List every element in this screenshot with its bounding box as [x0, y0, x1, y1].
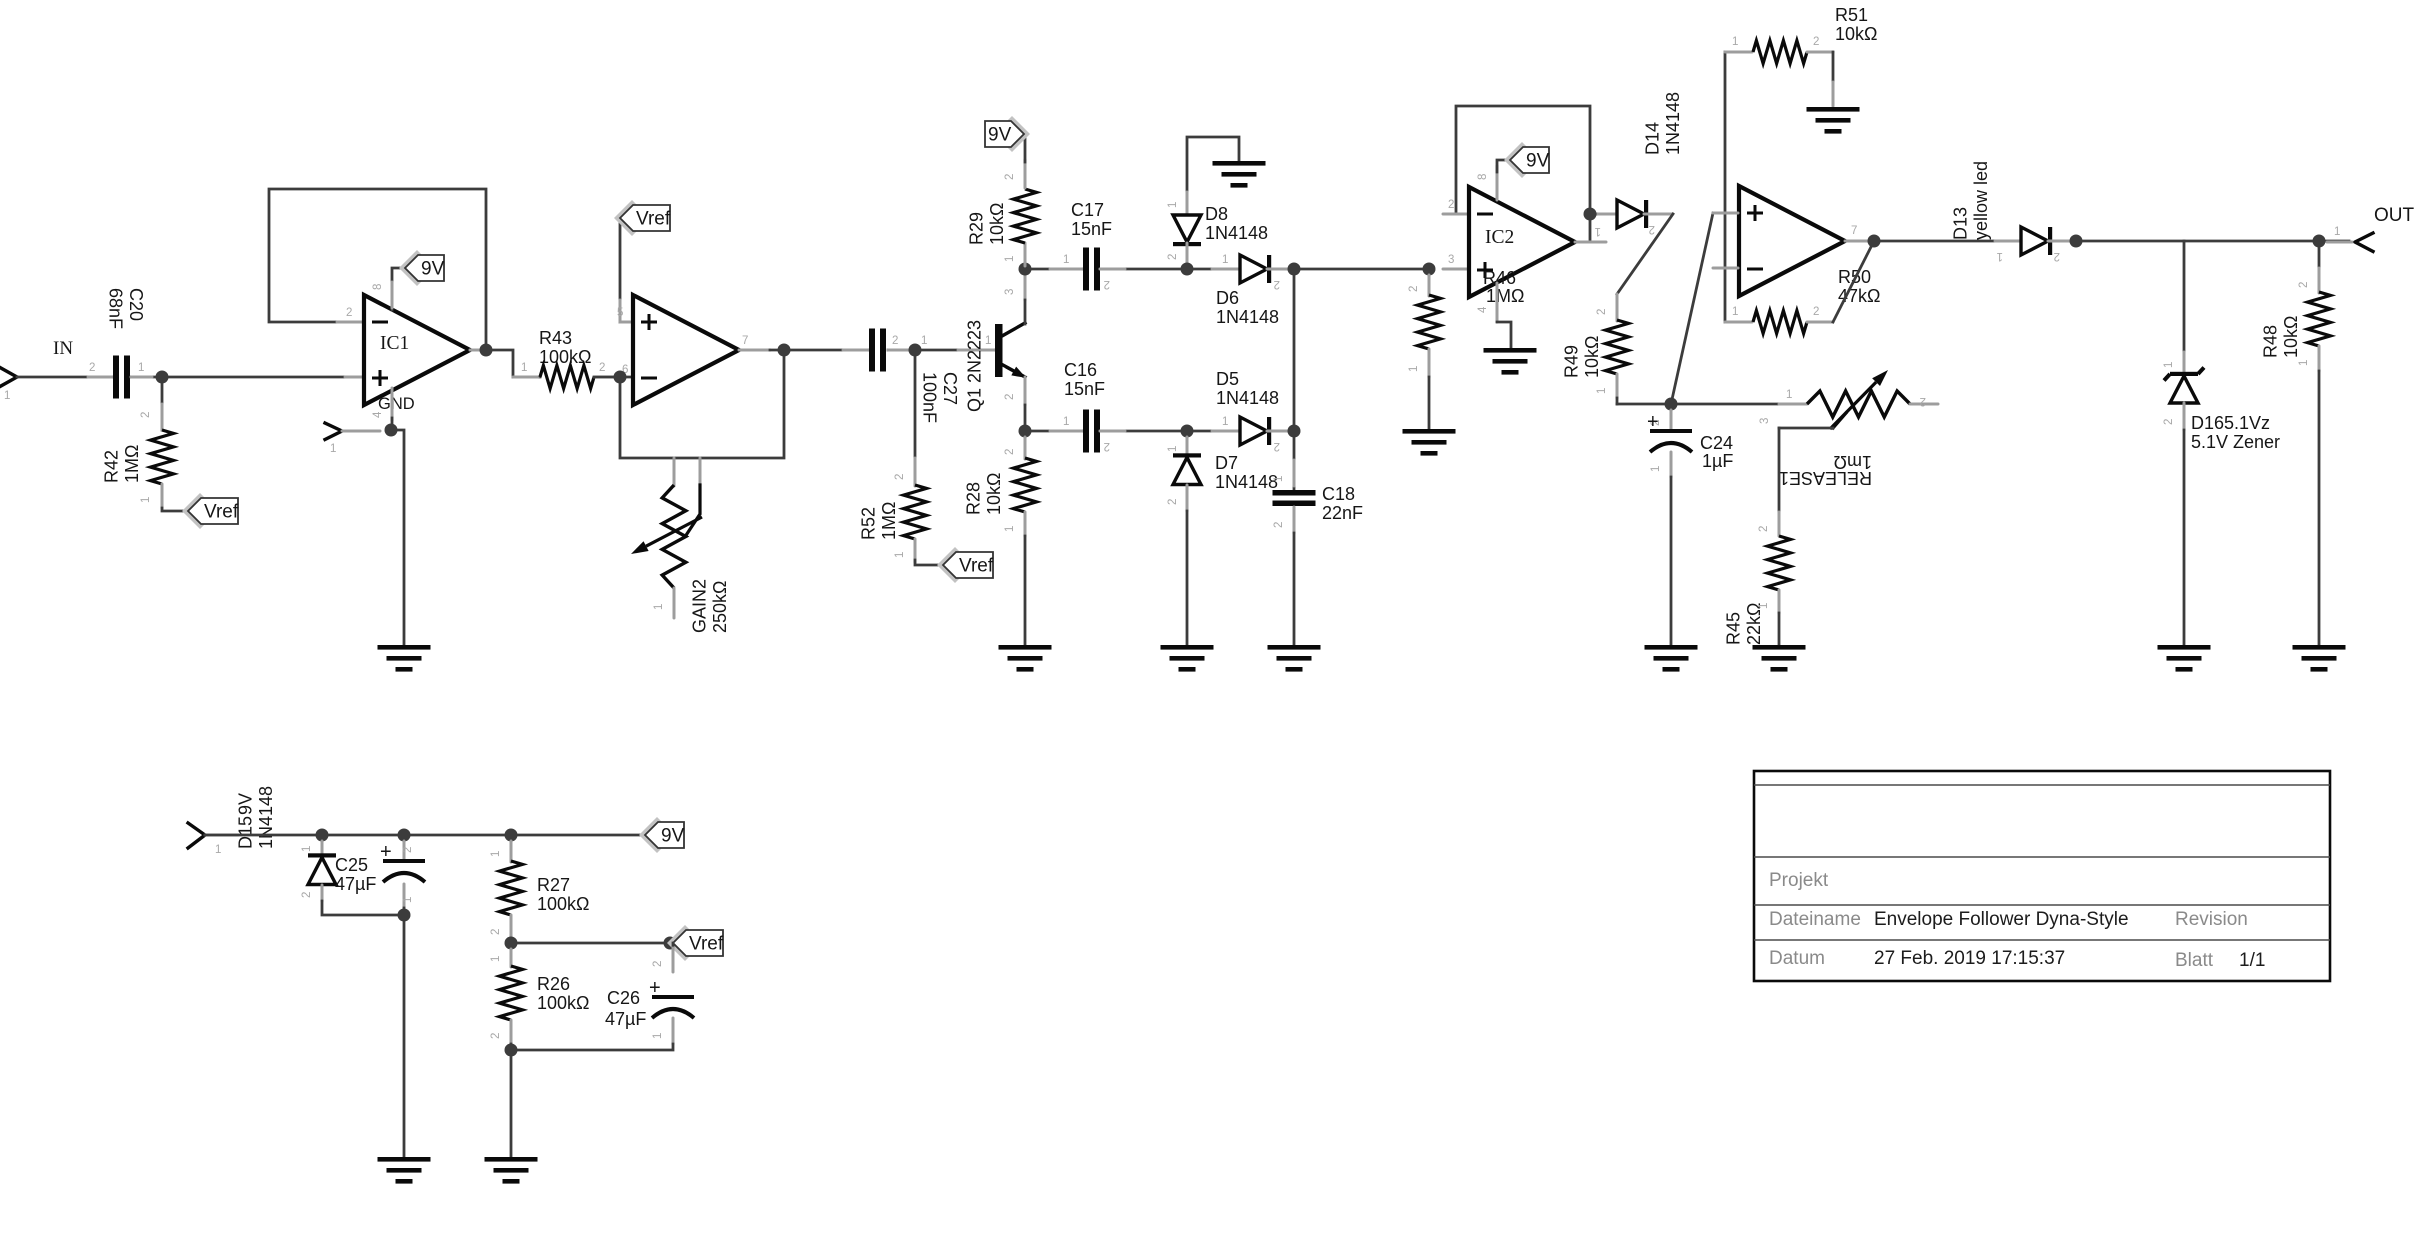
ground (below R45) — [1753, 645, 1806, 650]
svg-text:Vref: Vref — [689, 934, 724, 955]
svg-text:R29: R29 — [967, 212, 987, 245]
resistor R46 — [1418, 295, 1441, 349]
svg-text:15nF: 15nF — [1064, 379, 1105, 399]
svg-text:1: 1 — [490, 956, 502, 962]
wire — [1670, 452, 1673, 477]
ground (below C24) — [1645, 645, 1698, 650]
zener diode D16 5.1Vz — [2170, 376, 2198, 403]
wire — [1294, 268, 1429, 271]
svg-text:2: 2 — [1813, 306, 1819, 318]
op-amp U2 — [633, 295, 739, 405]
node (D8/D6) — [1181, 263, 1194, 276]
svg-text:OUT: OUT — [2374, 205, 2415, 226]
wire (R51 left) — [1725, 51, 1752, 54]
wiper arrow GAIN2 — [646, 517, 702, 546]
svg-text:250kΩ: 250kΩ — [710, 581, 730, 634]
svg-text:2: 2 — [1167, 254, 1179, 260]
svg-text:GAIN2: GAIN2 — [690, 579, 710, 633]
svg-text:2: 2 — [1758, 526, 1770, 532]
wire (pot pin1) — [1779, 403, 1807, 406]
wire (pot pin1) — [673, 588, 676, 618]
svg-text:2: 2 — [894, 474, 906, 480]
wire — [403, 915, 406, 1156]
svg-text:2: 2 — [652, 961, 664, 967]
wire (R27 top) — [510, 841, 513, 862]
svg-text:2: 2 — [1104, 278, 1110, 290]
diode D7 — [1173, 458, 1201, 485]
svg-text:1: 1 — [1063, 416, 1069, 428]
svg-text:IN: IN — [53, 338, 73, 359]
wire (diagonal D14-R49) — [1617, 214, 1673, 294]
svg-text:2: 2 — [1274, 440, 1280, 452]
wire (C18 top) — [1293, 431, 1296, 489]
wire (collector) — [1024, 275, 1027, 300]
connector IN (pinhead) — [0, 368, 17, 387]
svg-text:1: 1 — [402, 897, 414, 903]
svg-text:1/1: 1/1 — [2239, 950, 2265, 971]
svg-text:GND: GND — [378, 395, 415, 413]
wire (vertical R51-R50) — [1724, 52, 1727, 322]
svg-text:D8: D8 — [1205, 204, 1228, 224]
svg-text:1: 1 — [1786, 389, 1792, 401]
diode D8 — [1173, 215, 1201, 242]
svg-text:IC2: IC2 — [1485, 227, 1514, 248]
svg-text:100nF: 100nF — [920, 372, 940, 423]
svg-text:1: 1 — [2163, 362, 2175, 368]
svg-text:C20: C20 — [126, 288, 146, 321]
svg-text:1N4148: 1N4148 — [1663, 92, 1683, 155]
svg-text:1: 1 — [1596, 388, 1608, 394]
svg-text:1: 1 — [521, 362, 527, 374]
flag 9V (IC2) — [1504, 142, 1540, 178]
wire — [131, 376, 345, 379]
resistor R48 — [2308, 292, 2331, 346]
wire (op3 + stub) — [1713, 212, 1738, 215]
node (R48 top) — [2313, 235, 2326, 248]
node (C25) — [398, 829, 411, 842]
svg-text:2: 2 — [1167, 499, 1179, 505]
svg-text:3: 3 — [1448, 254, 1454, 266]
wire (op3 - stub) — [1713, 267, 1738, 270]
wire — [1025, 430, 1083, 433]
wire (Vref to +) — [620, 218, 633, 322]
node (IC1 output) — [480, 344, 493, 357]
wire — [205, 834, 645, 837]
svg-text:1: 1 — [1758, 603, 1770, 609]
svg-text:1µF: 1µF — [1702, 451, 1733, 471]
potentiometer GAIN2 — [662, 485, 686, 588]
svg-text:2: 2 — [2298, 282, 2310, 288]
svg-text:1N4148: 1N4148 — [1216, 307, 1279, 327]
potentiometer RELEASE1 — [1807, 391, 1910, 417]
ground (below R28) — [999, 645, 1052, 650]
wire — [888, 349, 995, 352]
node (collector) — [1019, 263, 1032, 276]
wire — [510, 1050, 513, 1156]
flag Vref (R52) — [937, 547, 973, 583]
diode D15 — [308, 858, 336, 885]
wire (R26 top) — [510, 949, 513, 967]
svg-text:1: 1 — [1222, 254, 1228, 266]
svg-text:Blatt: Blatt — [2175, 950, 2214, 971]
wire — [594, 376, 618, 379]
svg-text:4: 4 — [372, 411, 384, 418]
wire — [1100, 430, 1187, 433]
title block — [1754, 771, 2330, 981]
wire — [784, 349, 868, 352]
connector 9V input (pinhead) — [188, 823, 205, 848]
svg-text:1: 1 — [1167, 446, 1179, 452]
wire (R50 right) — [1807, 321, 1833, 324]
wire — [1293, 269, 1296, 431]
node (op2 - input) — [614, 371, 627, 384]
resistor R52 — [904, 485, 927, 539]
svg-text:R49: R49 — [1562, 345, 1582, 378]
svg-text:Vref: Vref — [636, 209, 671, 230]
svg-text:4: 4 — [1477, 306, 1489, 313]
svg-text:2: 2 — [1920, 395, 1926, 407]
wire — [1024, 512, 1027, 536]
wire (R29 top) — [1024, 160, 1027, 188]
wire — [1186, 243, 1189, 265]
svg-text:1MΩ: 1MΩ — [1486, 286, 1524, 306]
node (IC2 out) — [1584, 208, 1597, 221]
node (D13 out) — [2070, 235, 2083, 248]
svg-text:Vref: Vref — [959, 556, 994, 577]
svg-text:2: 2 — [1649, 223, 1655, 235]
node (C25 bottom) — [398, 909, 411, 922]
svg-text:9V: 9V — [988, 125, 1012, 146]
svg-text:1MΩ: 1MΩ — [122, 445, 142, 483]
wire — [2183, 403, 2186, 430]
svg-text:C27: C27 — [940, 372, 960, 405]
wire — [2076, 240, 2349, 243]
wire — [1267, 268, 1293, 271]
flag 9V (R29) — [994, 116, 1030, 152]
wire — [1778, 590, 1781, 613]
wire — [2048, 240, 2074, 243]
ground (R51) — [1807, 107, 1860, 112]
wire — [161, 484, 164, 508]
svg-text:Vref: Vref — [204, 502, 239, 523]
svg-text:R26: R26 — [537, 974, 570, 994]
svg-text:D6: D6 — [1216, 288, 1239, 308]
svg-text:27 Feb. 2019 17:15:37: 27 Feb. 2019 17:15:37 — [1874, 948, 2065, 969]
diode D13 — [2021, 227, 2048, 255]
wiper arrow RELEASE1 — [1830, 382, 1876, 429]
svg-text:8: 8 — [1477, 174, 1489, 180]
node (C27/R52/Q1 base) — [909, 344, 922, 357]
capacitor C16 — [1083, 410, 1089, 453]
wire — [1874, 240, 2021, 243]
flag Vref (R42) — [182, 493, 218, 529]
svg-text:Projekt: Projekt — [1769, 870, 1829, 891]
ground (below zener) — [2158, 645, 2211, 650]
wire (R50 left) — [1725, 321, 1752, 324]
svg-text:1N4148: 1N4148 — [1216, 388, 1279, 408]
capacitor C18 — [1273, 490, 1316, 496]
svg-text:2: 2 — [1813, 36, 1819, 48]
svg-text:2: 2 — [1448, 199, 1454, 211]
wire (pot stub 2) — [699, 458, 702, 486]
capacitor C17 — [1083, 248, 1089, 291]
node (D5/D7) — [1181, 425, 1194, 438]
connector GND pinhead — [325, 423, 342, 440]
svg-text:2: 2 — [599, 362, 605, 374]
svg-text:3: 3 — [1759, 418, 1771, 424]
flag Vref (op-amp2 +) — [614, 200, 650, 236]
svg-text:2: 2 — [490, 929, 502, 935]
flag Vref (divider) — [667, 925, 703, 961]
svg-text:D14: D14 — [1643, 122, 1663, 155]
svg-text:C17: C17 — [1071, 200, 1104, 220]
wire — [672, 1018, 675, 1044]
wire — [17, 376, 112, 379]
wire — [1186, 485, 1189, 511]
svg-text:1: 1 — [301, 846, 313, 852]
wire — [1187, 430, 1240, 433]
wire — [1428, 349, 1431, 377]
wire — [1616, 374, 1619, 398]
svg-text:R43: R43 — [539, 328, 572, 348]
wire — [1293, 507, 1296, 533]
svg-text:10kΩ: 10kΩ — [1582, 336, 1602, 378]
svg-text:Revision: Revision — [2175, 909, 2248, 930]
diode D5 — [1240, 417, 1267, 445]
svg-text:1: 1 — [1408, 366, 1420, 372]
ground (below C18) — [1268, 645, 1321, 650]
wire (IC1 out) — [470, 350, 540, 377]
wire (diagonal op3+ to C24) — [1671, 213, 1713, 404]
svg-text:1: 1 — [330, 443, 336, 455]
svg-text:1MΩ: 1MΩ — [879, 502, 899, 540]
wire (IC1 feedback) — [269, 189, 486, 350]
node (Vref divider) — [505, 937, 518, 950]
wire (IC2 out) — [1575, 241, 1606, 244]
svg-text:1: 1 — [1997, 250, 2003, 262]
svg-text:1: 1 — [921, 335, 927, 347]
capacitor C20 — [113, 356, 119, 399]
wire — [1100, 268, 1187, 271]
wire — [511, 942, 670, 945]
wire (IC2 pin8) — [1496, 166, 1499, 200]
svg-text:10kΩ: 10kΩ — [2281, 316, 2301, 358]
svg-text:9V: 9V — [661, 826, 685, 847]
wire — [1644, 213, 1672, 216]
svg-text:1: 1 — [652, 1033, 664, 1039]
svg-text:47kΩ: 47kΩ — [1838, 286, 1880, 306]
wire (D7 top) — [1186, 437, 1189, 456]
resistor R42 — [151, 430, 174, 484]
svg-text:1: 1 — [1063, 254, 1069, 266]
ground (IC2 pin4) — [1484, 348, 1537, 353]
op-amp IC2 — [1469, 187, 1575, 297]
wire — [510, 1020, 513, 1044]
node (emitter) — [1019, 425, 1032, 438]
svg-text:2: 2 — [490, 1033, 502, 1039]
svg-text:5.1V Zener: 5.1V Zener — [2191, 432, 2280, 452]
svg-text:Dateiname: Dateiname — [1769, 909, 1861, 930]
svg-text:D7: D7 — [1215, 453, 1238, 473]
svg-text:1: 1 — [1222, 416, 1228, 428]
svg-text:R45: R45 — [1724, 612, 1744, 645]
svg-text:7: 7 — [742, 335, 748, 347]
wire (IC2 feedback) — [1456, 106, 1590, 242]
wire (C25 top) — [403, 841, 406, 860]
flag 9V (rail) — [639, 817, 675, 853]
svg-text:1N4148: 1N4148 — [256, 786, 276, 849]
svg-text:2: 2 — [892, 335, 898, 347]
svg-text:Envelope Follower Dyna-Style: Envelope Follower Dyna-Style — [1874, 909, 2129, 930]
wire (pot stub 3) — [673, 458, 676, 486]
svg-text:1: 1 — [653, 604, 665, 610]
ground (below D7) — [1161, 645, 1214, 650]
node (D5 out) — [1288, 425, 1301, 438]
wire (R29 bottom) — [1024, 243, 1027, 266]
wire (C26 top) — [672, 943, 675, 948]
wire — [1617, 403, 1779, 406]
ground (C25/D15) — [378, 1157, 431, 1162]
svg-text:R28: R28 — [964, 482, 984, 515]
wire — [510, 915, 513, 940]
svg-text:1: 1 — [1650, 466, 1662, 472]
wire (IC1 pin8) — [392, 268, 405, 310]
svg-text:1N4148: 1N4148 — [1205, 223, 1268, 243]
svg-text:5: 5 — [617, 307, 623, 319]
svg-text:2: 2 — [1596, 309, 1608, 315]
svg-text:10kΩ: 10kΩ — [984, 473, 1004, 515]
svg-text:1: 1 — [215, 844, 221, 856]
ground (top, D8) — [1213, 161, 1266, 166]
svg-text:1: 1 — [985, 335, 991, 347]
svg-text:yellow led: yellow led — [1971, 161, 1991, 240]
svg-text:2: 2 — [2163, 419, 2175, 425]
resistor R29 — [1014, 189, 1037, 243]
svg-text:2: 2 — [402, 847, 414, 853]
svg-text:1: 1 — [1167, 202, 1179, 208]
node (R26 bottom) — [505, 1044, 518, 1057]
svg-text:D5: D5 — [1216, 369, 1239, 389]
node (IC2 + input) — [1423, 263, 1436, 276]
wire — [1267, 430, 1293, 433]
diode D6 — [1240, 255, 1267, 283]
svg-text:1N4148: 1N4148 — [1215, 472, 1278, 492]
resistor R26 — [500, 966, 523, 1020]
op-amp IC1 — [364, 295, 470, 405]
svg-text:47µF: 47µF — [605, 1009, 646, 1029]
svg-text:2: 2 — [1104, 440, 1110, 452]
wire (pot pin3 to R45) — [1779, 427, 1833, 430]
svg-text:2: 2 — [301, 892, 313, 898]
wire — [2318, 346, 2321, 371]
svg-text:2: 2 — [1274, 278, 1280, 290]
wire (C24 top) — [1670, 410, 1673, 430]
svg-text:1: 1 — [1732, 306, 1738, 318]
svg-text:47µF: 47µF — [335, 874, 376, 894]
svg-text:1: 1 — [1595, 225, 1601, 237]
svg-text:R27: R27 — [537, 875, 570, 895]
wire (D15 top) — [321, 841, 324, 856]
svg-text:R48: R48 — [2261, 325, 2281, 358]
wire (zener top) — [2183, 241, 2186, 352]
svg-text:R52: R52 — [859, 507, 879, 540]
capacitor C27 — [869, 329, 875, 372]
svg-text:C16: C16 — [1064, 360, 1097, 380]
svg-text:R42: R42 — [102, 450, 122, 483]
wire (R48 top) — [2318, 241, 2321, 270]
wire — [161, 377, 164, 430]
node (op3 out) — [1868, 235, 1881, 248]
svg-text:R51: R51 — [1835, 5, 1868, 25]
wire (R51 right) — [1807, 51, 1833, 54]
svg-text:Q1 2N2223: Q1 2N2223 — [965, 320, 985, 412]
resistor R51 — [1753, 41, 1807, 64]
wire — [1590, 213, 1617, 216]
node (C24 top) — [1665, 398, 1678, 411]
svg-text:1: 1 — [140, 497, 152, 503]
wire (D8 to top ground) — [1187, 137, 1239, 192]
resistor R45 — [1768, 536, 1791, 590]
svg-text:C24: C24 — [1700, 433, 1733, 453]
ground (R26) — [485, 1157, 538, 1162]
wire (R28 top) — [1024, 437, 1027, 459]
resistor R27 — [500, 861, 523, 915]
node (IC1 pin4/gnd) — [385, 424, 398, 437]
svg-text:2: 2 — [1273, 522, 1285, 528]
diode D14 — [1617, 200, 1644, 228]
svg-text:10kΩ: 10kΩ — [987, 203, 1007, 245]
svg-text:1: 1 — [1732, 36, 1738, 48]
wire (emitter) — [1024, 377, 1027, 405]
node A (C20/R42/IC1+) — [156, 371, 169, 384]
wire (op2 out) — [739, 349, 770, 352]
svg-text:C18: C18 — [1322, 484, 1355, 504]
transistor Q1 2N2223 — [995, 324, 1003, 377]
op-amp U3 — [1739, 186, 1845, 296]
svg-text:1: 1 — [1004, 526, 1016, 532]
wire (IC2 pin4) — [1496, 283, 1499, 322]
wire — [403, 884, 406, 908]
svg-text:1: 1 — [2334, 226, 2340, 238]
svg-text:15nF: 15nF — [1071, 219, 1112, 239]
wire (feedback loop op2) — [620, 350, 784, 458]
svg-text:1: 1 — [1004, 256, 1016, 262]
ground (below R46) — [1403, 429, 1456, 434]
node (op2 output) — [778, 344, 791, 357]
node (R27) — [505, 829, 518, 842]
svg-text:C26: C26 — [607, 988, 640, 1008]
wire — [1187, 268, 1240, 271]
wire — [321, 885, 324, 901]
svg-text:9V: 9V — [421, 259, 445, 280]
svg-text:100kΩ: 100kΩ — [537, 993, 590, 1013]
svg-text:1: 1 — [894, 552, 906, 558]
connector OUT (pinhead) — [2355, 233, 2373, 252]
node (D6 out) — [1288, 263, 1301, 276]
svg-text:68nF: 68nF — [106, 288, 126, 329]
svg-text:D165.1Vz: D165.1Vz — [2191, 413, 2270, 433]
svg-text:8: 8 — [372, 284, 384, 290]
wire (R49 top) — [1616, 294, 1619, 321]
svg-text:D13: D13 — [1951, 207, 1971, 240]
svg-text:1: 1 — [1273, 476, 1285, 482]
svg-text:9V: 9V — [236, 793, 256, 815]
wire (IC1 pin4) — [391, 388, 394, 420]
flag 9V (IC1) — [399, 250, 435, 286]
svg-text:1: 1 — [138, 362, 144, 374]
resistor R28 — [1014, 458, 1037, 512]
svg-text:7: 7 — [1851, 225, 1857, 237]
